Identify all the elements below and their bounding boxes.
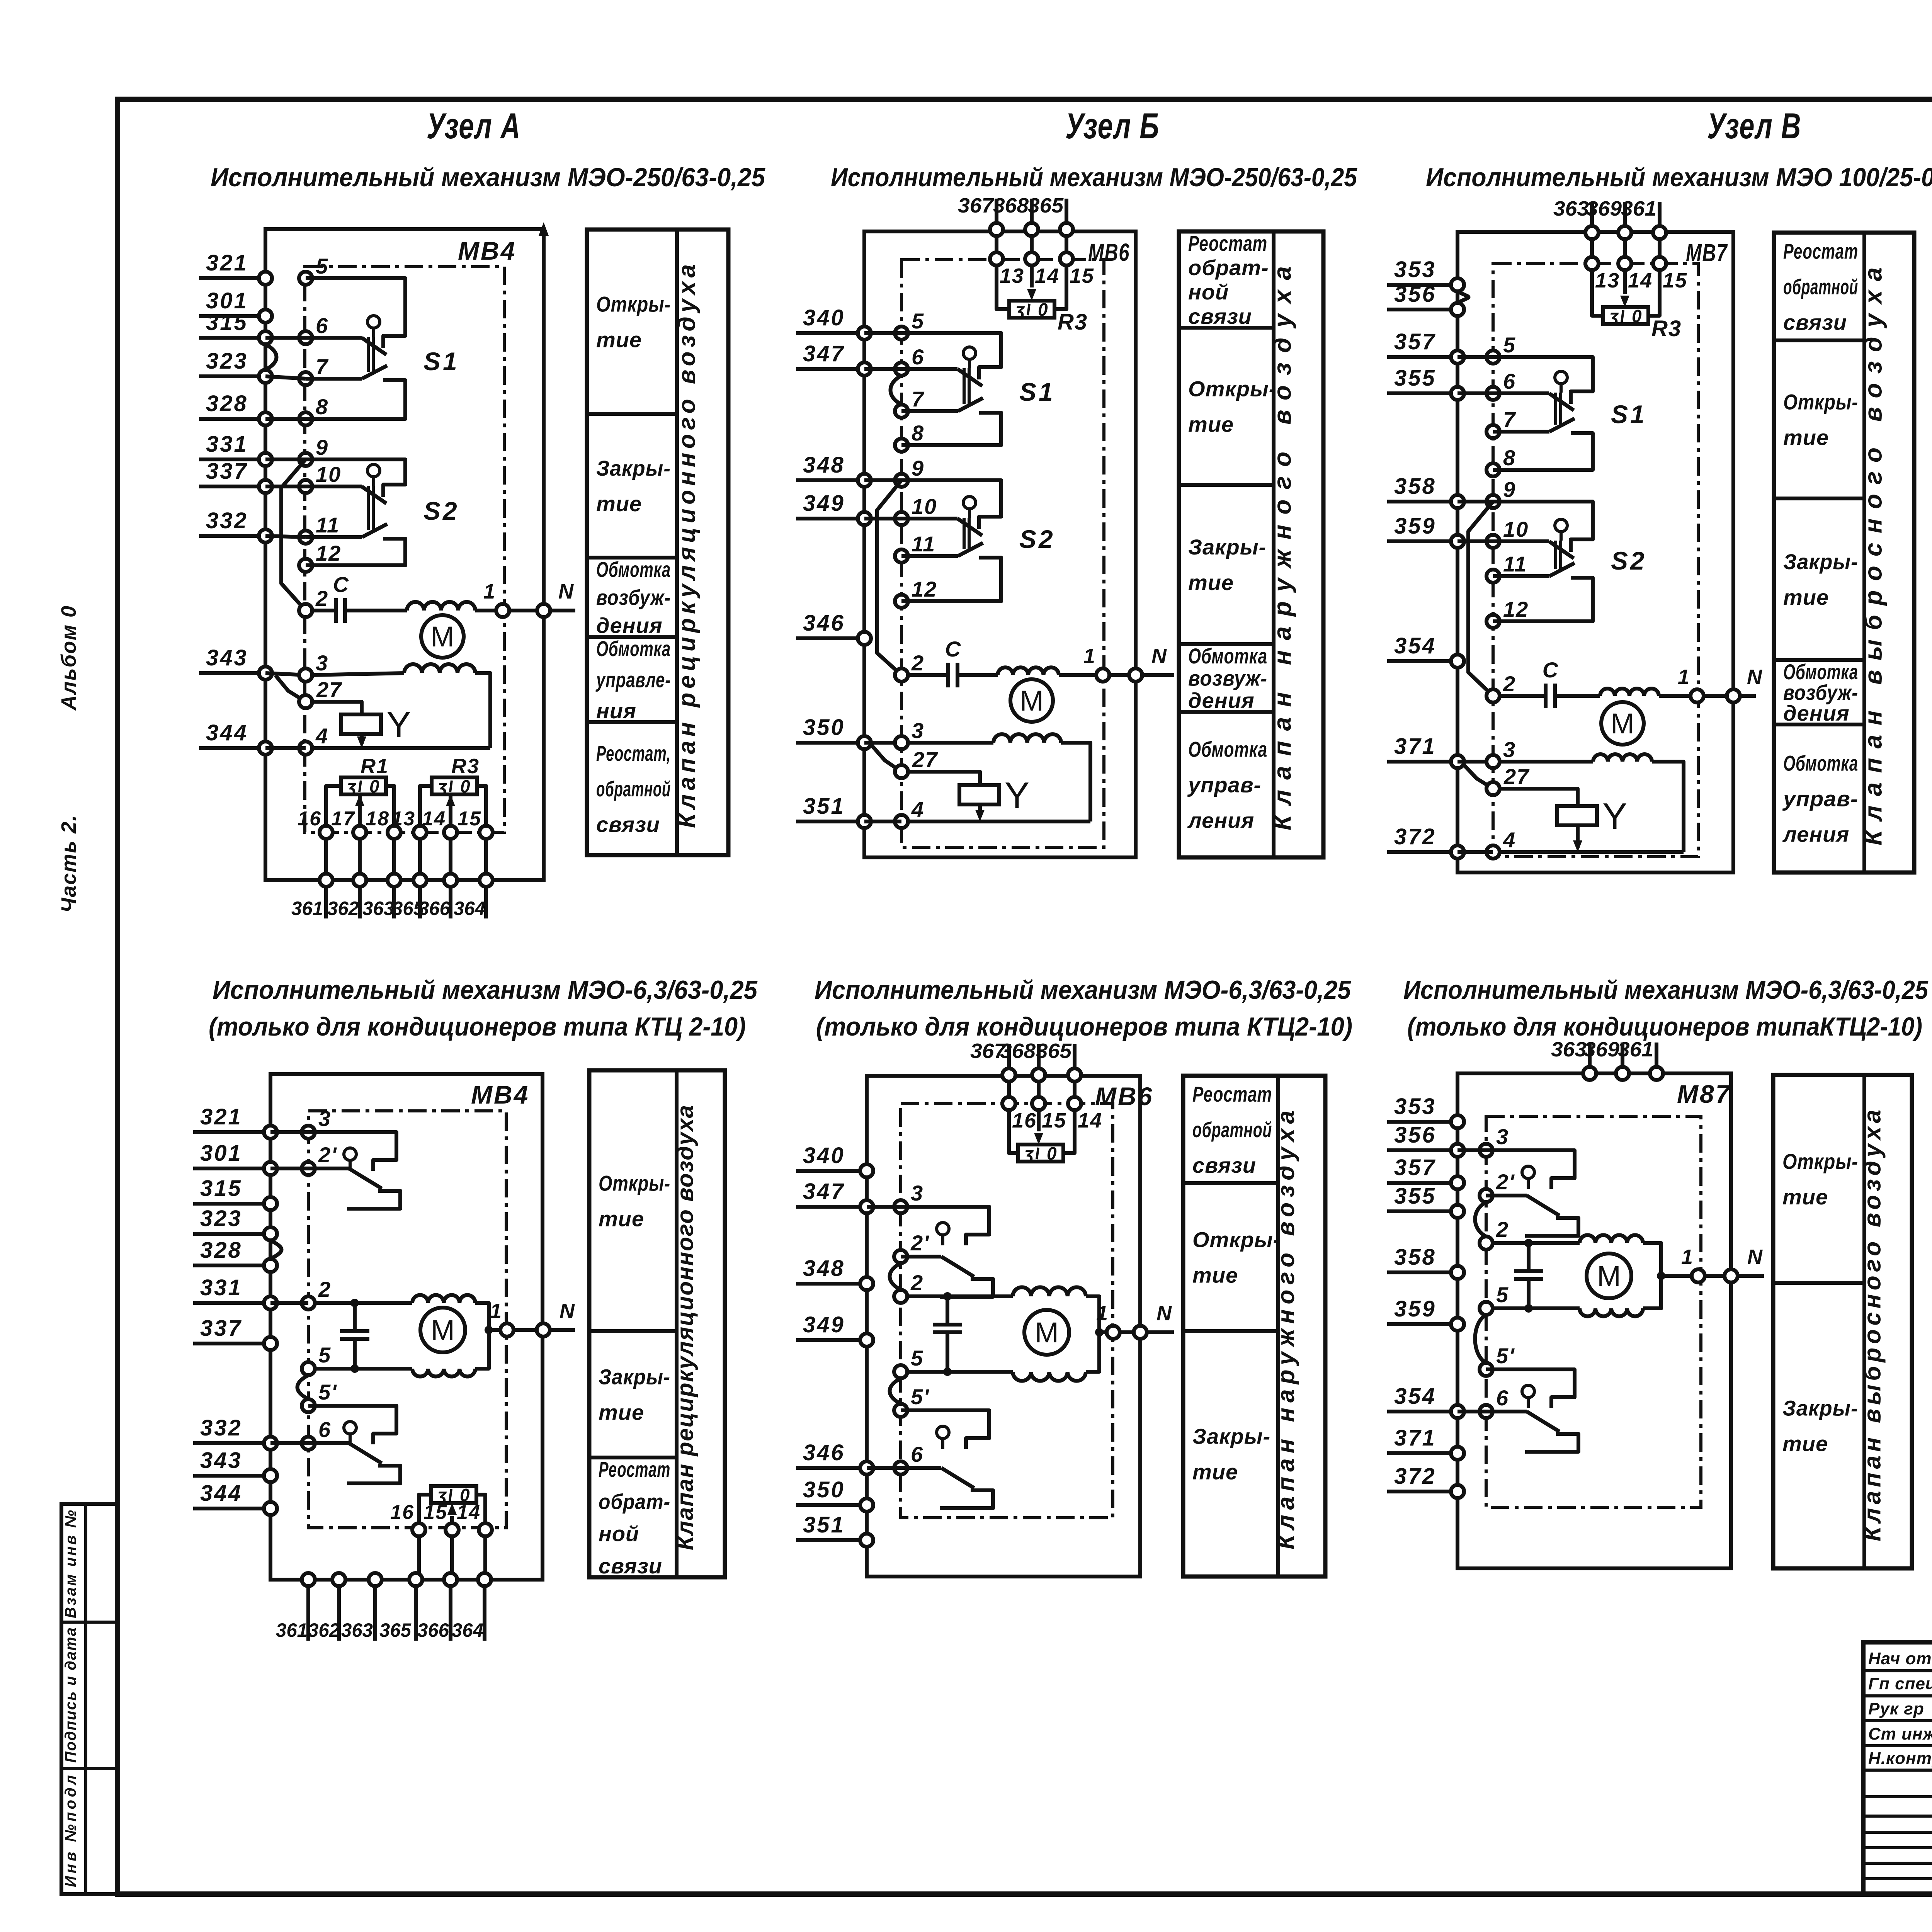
terminal 321: [199, 250, 272, 285]
svg-text:Нач отд.: Нач отд.: [1868, 1649, 1932, 1668]
terminal 372: [1387, 1464, 1464, 1498]
svg-text:2': 2': [910, 1231, 929, 1255]
pin 16: [298, 808, 333, 839]
svg-text:332: 332: [200, 1415, 242, 1440]
pin 4: [299, 724, 328, 755]
pin 9: [299, 435, 328, 466]
svg-text:371: 371: [1394, 734, 1436, 759]
resistor R: [1018, 1143, 1063, 1163]
svg-text:363: 363: [341, 1619, 373, 1641]
resistor R3 feed wires: [997, 265, 1066, 309]
svg-text:361: 361: [276, 1619, 308, 1641]
motor M: [1601, 702, 1644, 745]
svg-text:344: 344: [200, 1481, 242, 1506]
svg-text:связи: связи: [599, 1554, 662, 1578]
svg-text:351: 351: [803, 1512, 845, 1537]
block A2 outer rect: [270, 1074, 543, 1580]
motor M: [1024, 1310, 1069, 1355]
block C2b outer rect: [1458, 1073, 1731, 1568]
terminal 359: [1387, 1296, 1464, 1331]
block B2 outer rect: [867, 1076, 1140, 1577]
terminal label 361: [276, 1619, 308, 1641]
svg-text:3: 3: [316, 651, 328, 675]
subtitle mechanism C2 line1: [1403, 975, 1929, 1005]
limit switch S1: [306, 278, 459, 419]
terminal 321: [193, 1104, 277, 1139]
subtitle mechanism B2 line1: [815, 975, 1351, 1005]
svg-text:N: N: [1747, 1245, 1763, 1269]
svg-text:Исполнительный механизм МЭО 1: Исполнительный механизм МЭО 100/25-0,25: [1426, 163, 1932, 192]
svg-text:МВ4: МВ4: [458, 236, 516, 265]
pin 13: [990, 236, 1024, 287]
block C1 outer rect: [1458, 232, 1733, 872]
pin 3: [895, 718, 924, 749]
resistor R bottom: [431, 1485, 476, 1505]
block A2 dash-dot boundary: [308, 1111, 506, 1528]
svg-text:возвуж-: возвуж-: [1188, 666, 1267, 690]
wire 332-11: [265, 536, 306, 537]
terminal label 363: [341, 1619, 373, 1641]
R feed wires: [1009, 1110, 1075, 1153]
svg-text:ʒ: ʒ: [1608, 306, 1619, 326]
pin 8: [299, 395, 328, 425]
svg-text:тие: тие: [1192, 1263, 1238, 1287]
pin 16: [1002, 1082, 1037, 1132]
pin 5: [894, 1346, 923, 1378]
header Узел В: [1707, 105, 1801, 146]
terminal 348: [796, 452, 871, 487]
terminal 340: [796, 305, 871, 340]
terminal 348: [796, 1256, 873, 1290]
terminal 371: [1387, 734, 1464, 768]
svg-text:R3: R3: [451, 755, 480, 778]
wire 337-10: [265, 485, 306, 488]
svg-text:361: 361: [1621, 197, 1656, 220]
svg-text:тие: тие: [599, 1207, 644, 1231]
svg-text:МВ6: МВ6: [1088, 238, 1130, 266]
svg-text:5: 5: [912, 309, 924, 333]
limit switch S2: [1493, 502, 1647, 621]
jog 3 to pin 27: [871, 745, 901, 772]
subtitle mechanism A2 line2: [209, 1012, 746, 1041]
svg-text:321: 321: [200, 1104, 242, 1129]
node N: [537, 1323, 550, 1337]
svg-text:обрат-: обрат-: [1188, 255, 1269, 280]
svg-text:5: 5: [318, 1343, 331, 1367]
terminal 328: [199, 391, 272, 425]
field winding coil: [998, 667, 1059, 675]
pin 10: [1486, 517, 1529, 548]
terminal 337: [199, 459, 272, 493]
svg-text:Узел Б: Узел Б: [1065, 105, 1160, 146]
svg-text:МВ4: МВ4: [471, 1080, 529, 1109]
svg-text:Закры-: Закры-: [1188, 535, 1266, 559]
pin 2': [302, 1143, 337, 1175]
svg-text:14: 14: [1078, 1109, 1102, 1132]
wire 5 row: [907, 1370, 1013, 1374]
pin 3: [1480, 1124, 1509, 1157]
pin 13: [391, 808, 427, 839]
svg-text:350: 350: [803, 1477, 845, 1502]
svg-text:Откры-: Откры-: [1783, 390, 1858, 414]
svg-text:C: C: [333, 572, 349, 597]
svg-text:328: 328: [206, 391, 248, 416]
svg-text:2: 2: [318, 1277, 331, 1301]
terminal 332: [199, 508, 272, 543]
svg-text:Альбом 0: Альбом 0: [57, 605, 80, 711]
svg-text:1: 1: [490, 1299, 502, 1323]
header Узел А: [427, 105, 521, 146]
svg-text:1: 1: [1083, 645, 1095, 668]
pin 5: [302, 1343, 331, 1375]
pin 7: [895, 387, 925, 418]
svg-text:353: 353: [1394, 257, 1436, 282]
svg-text:347: 347: [803, 1179, 845, 1204]
pin 5: [299, 254, 328, 285]
motor M: [1587, 1253, 1631, 1298]
terminal 350: [796, 1477, 873, 1512]
node 1: [1692, 1269, 1705, 1282]
svg-text:М: М: [1597, 1260, 1621, 1292]
terminal 337: [193, 1316, 277, 1350]
limit switch S1: [901, 333, 1055, 445]
svg-text:14: 14: [1035, 264, 1060, 287]
pin 14: [1068, 1082, 1102, 1132]
svg-text:C: C: [945, 637, 961, 661]
svg-text:0: 0: [369, 776, 379, 796]
svg-text:Клапан наружного воздуха: Клапан наружного воздуха: [1273, 1111, 1299, 1549]
bus-pin wire: [1458, 850, 1493, 854]
svg-text:358: 358: [1394, 1245, 1436, 1270]
pin 27: [1486, 764, 1530, 795]
terminal 301: [193, 1141, 277, 1175]
switch upper: [1486, 1150, 1578, 1236]
svg-text:Реостат: Реостат: [1783, 239, 1858, 264]
pin 15: [1032, 1082, 1066, 1132]
svg-text:Гп спец: Гп спец: [1868, 1674, 1932, 1693]
svg-text:14: 14: [457, 1501, 481, 1524]
table block C1: [1774, 233, 1914, 872]
block C1 dash-dot boundary: [1493, 264, 1698, 857]
svg-text:Обмотка: Обмотка: [596, 557, 671, 582]
terminal 331: [193, 1275, 277, 1310]
terminal label 366: [418, 898, 451, 919]
R3 terminal wires: [420, 786, 486, 832]
svg-text:ния: ния: [596, 699, 636, 723]
wire 9 to pin 2 jog: [877, 480, 901, 675]
svg-text:Исполнительный механизм МЭО-6: Исполнительный механизм МЭО-6,3/63-0,25: [1403, 975, 1929, 1005]
svg-text:351: 351: [803, 794, 845, 819]
svg-text:353: 353: [1394, 1094, 1436, 1119]
wire 5 row: [1493, 1306, 1580, 1310]
svg-text:18: 18: [366, 808, 389, 830]
table block A2: [589, 1070, 725, 1578]
svg-text:3: 3: [1496, 1124, 1509, 1149]
svg-text:Закры-: Закры-: [1783, 549, 1858, 574]
pin 2: [302, 1277, 331, 1310]
bus-pin wire: [270, 1130, 308, 1134]
terminal label 364: [454, 898, 485, 919]
terminal 347: [796, 341, 871, 376]
svg-text:5': 5': [911, 1384, 929, 1409]
block B dash-dot boundary: [901, 260, 1104, 847]
svg-text:N: N: [560, 1299, 575, 1323]
svg-text:367: 367: [958, 194, 995, 217]
label М87: [1677, 1080, 1731, 1108]
node 1: [1690, 689, 1704, 702]
svg-text:347: 347: [803, 341, 845, 366]
terminal 346: [796, 1440, 873, 1475]
svg-text:337: 337: [206, 459, 248, 484]
svg-text:356: 356: [1394, 282, 1436, 307]
svg-text:ления: ления: [1782, 822, 1849, 847]
label МВ6: [1095, 1082, 1153, 1111]
bus-pin wire: [1458, 1148, 1486, 1152]
svg-text:3: 3: [318, 1106, 331, 1131]
svg-text:М: М: [1035, 1316, 1059, 1349]
control winding coil: [1500, 754, 1684, 852]
node 1: [1096, 668, 1109, 682]
pin 27: [299, 677, 342, 708]
terminal 346: [796, 611, 871, 645]
terminal 354: [1387, 1384, 1464, 1418]
jog 343 to pin 27: [276, 675, 306, 702]
pin 2: [895, 651, 924, 682]
svg-text:6: 6: [1503, 369, 1516, 393]
pin 11: [895, 532, 935, 563]
svg-text:обратной: обратной: [596, 777, 671, 801]
capacitor C: [908, 637, 998, 687]
terminal 315: [193, 1176, 277, 1210]
pin 14: [457, 1501, 492, 1536]
svg-text:10: 10: [1503, 517, 1529, 541]
pin 5': [894, 1384, 929, 1417]
svg-text:М87: М87: [1677, 1080, 1731, 1108]
pin 10: [895, 494, 937, 525]
svg-text:М: М: [1611, 707, 1634, 740]
bridge arc: [1475, 1202, 1486, 1236]
svg-text:S2: S2: [1019, 525, 1055, 553]
pin 3: [894, 1181, 923, 1213]
subtitle mechanism A: [211, 163, 765, 192]
terminal label 365: [379, 1619, 412, 1641]
pin 13: [1585, 239, 1620, 292]
svg-text:Ст инж: Ст инж: [1868, 1725, 1932, 1743]
limit switch S1: [1493, 357, 1647, 470]
terminal 372: [1387, 824, 1464, 859]
svg-text:15: 15: [423, 1501, 447, 1524]
svg-text:2: 2: [1496, 1217, 1509, 1242]
terminal 353: [1387, 257, 1464, 291]
svg-text:12: 12: [1503, 597, 1529, 621]
svg-text:17: 17: [331, 808, 355, 830]
terminal 343 to pin 3: [265, 673, 306, 675]
svg-text:N: N: [1156, 1302, 1172, 1325]
svg-text:обрат-: обрат-: [599, 1489, 670, 1514]
svg-text:ления: ления: [1187, 808, 1254, 833]
svg-text:16: 16: [1012, 1109, 1037, 1132]
terminal 315: [199, 310, 272, 344]
svg-text:связи: связи: [596, 812, 660, 837]
terminal 343: [199, 645, 272, 680]
terminal 355: [1387, 1184, 1464, 1218]
capacitor C vertical: [1493, 1239, 1580, 1313]
svg-text:359: 359: [1394, 1296, 1436, 1321]
svg-text:Исполнительный механизм МЭО-: Исполнительный механизм МЭО-6,3/63-0,25: [815, 975, 1351, 1005]
svg-text:ʒ: ʒ: [437, 776, 447, 796]
top terminal 368: [1000, 1039, 1045, 1082]
pin 15: [1060, 236, 1094, 287]
svg-text:8: 8: [912, 421, 924, 445]
svg-text:тие: тие: [596, 328, 642, 352]
pin 12: [1486, 597, 1529, 628]
pin 5': [302, 1380, 337, 1412]
svg-text:369: 369: [1584, 1038, 1619, 1061]
svg-text:9: 9: [1503, 477, 1516, 502]
wire 5 row: [315, 1367, 412, 1371]
svg-text:321: 321: [206, 250, 248, 276]
margin note Альбом 0: [57, 605, 80, 711]
switch upper: [308, 1132, 400, 1209]
bottom terminal row: [320, 839, 493, 918]
svg-text:11: 11: [1503, 552, 1527, 576]
svg-text:2': 2': [318, 1143, 337, 1167]
resistor R1: [341, 755, 389, 796]
stamp label Инв №подл: [62, 1775, 79, 1887]
svg-text:1: 1: [483, 580, 495, 603]
svg-text:Обмотка: Обмотка: [596, 636, 671, 661]
svg-text:348: 348: [803, 452, 845, 478]
svg-text:6: 6: [1496, 1386, 1509, 1410]
svg-text:R3: R3: [1058, 310, 1088, 335]
solenoid Y: [1500, 789, 1627, 852]
svg-text:ной: ной: [599, 1522, 639, 1546]
svg-text:372: 372: [1394, 1464, 1436, 1489]
bus-pin wire: [1458, 391, 1493, 395]
terminal label 366: [417, 1619, 449, 1641]
winding coil lower: [1580, 1308, 1643, 1316]
svg-text:366: 366: [418, 898, 451, 919]
pin 18: [366, 808, 401, 839]
pin 17: [331, 808, 366, 839]
svg-text:6: 6: [318, 1417, 331, 1442]
terminal label 363: [362, 898, 394, 919]
svg-text:337: 337: [200, 1316, 242, 1341]
svg-text:10: 10: [912, 494, 937, 519]
wire 1-N: [1659, 665, 1762, 696]
switch upper: [901, 1207, 993, 1297]
svg-text:Закры-: Закры-: [1782, 1396, 1858, 1420]
capacitor C vertical: [315, 1299, 412, 1373]
terminal 323: [199, 349, 272, 383]
svg-text:9: 9: [912, 456, 924, 480]
pin 14: [422, 808, 457, 839]
svg-text:13: 13: [1595, 269, 1620, 292]
pin 9: [1486, 477, 1516, 508]
pin 15: [423, 1501, 459, 1536]
svg-text:Обмотка: Обмотка: [1188, 737, 1267, 762]
pin 15: [457, 808, 493, 839]
table block B: [1179, 231, 1323, 857]
bottom terminal row: [302, 1536, 491, 1641]
subtitle mechanism B: [831, 163, 1357, 192]
bus-pin wire: [1458, 500, 1493, 503]
svg-text:11: 11: [316, 513, 340, 537]
personnel row Рук гр: [1868, 1699, 1932, 1718]
svg-text:2: 2: [910, 1270, 923, 1295]
svg-text:340: 340: [803, 305, 845, 330]
subtitle mechanism B2 line2: [816, 1012, 1352, 1041]
resistor R3: [1603, 306, 1682, 341]
svg-text:2: 2: [911, 651, 924, 675]
subtitle mechanism A2 line1: [213, 975, 758, 1005]
wire 1-N: [1643, 1243, 1764, 1308]
svg-text:Исполнительный механизм МЭО-: Исполнительный механизм МЭО-250/63-0,25: [211, 163, 765, 192]
node N: [1727, 689, 1740, 702]
terminal 355: [1387, 366, 1464, 400]
svg-text:тие: тие: [1783, 585, 1829, 609]
svg-text:тие: тие: [1188, 570, 1234, 595]
svg-text:R3: R3: [1651, 316, 1682, 341]
block A outer rect: [265, 222, 549, 880]
svg-text:S1: S1: [1019, 378, 1055, 406]
bridge arc: [1475, 1315, 1486, 1363]
top terminal 367: [970, 1039, 1015, 1082]
terminal label 361: [291, 898, 323, 919]
stamp label Взам инв №: [62, 1510, 79, 1618]
svg-text:управ-: управ-: [1187, 773, 1261, 797]
svg-text:Откры-: Откры-: [1782, 1149, 1858, 1173]
svg-text:S1: S1: [423, 347, 459, 376]
svg-text:332: 332: [206, 508, 248, 533]
svg-text:Обмотка: Обмотка: [1783, 751, 1858, 776]
top terminal 367: [958, 194, 1003, 236]
control winding coil: [908, 734, 1090, 821]
bus-pin wire: [1458, 539, 1493, 543]
svg-text:5': 5': [318, 1380, 337, 1404]
field winding coil: [407, 602, 475, 611]
svg-text:Откры-: Откры-: [596, 292, 671, 316]
svg-text:6: 6: [911, 1442, 923, 1466]
svg-text:9: 9: [316, 435, 328, 459]
terminal 340: [796, 1143, 873, 1177]
pin 3: [299, 651, 328, 682]
svg-text:368: 368: [1000, 1039, 1036, 1063]
svg-text:ʒ: ʒ: [1014, 299, 1025, 320]
svg-text:Закры-: Закры-: [1192, 1424, 1270, 1449]
svg-text:тие: тие: [1782, 1432, 1828, 1456]
pin 14: [1618, 239, 1653, 292]
wire 323-7: [265, 376, 306, 379]
svg-text:обратной: обратной: [1783, 275, 1858, 299]
svg-text:Закры-: Закры-: [599, 1365, 670, 1389]
control winding coil: [312, 664, 490, 748]
svg-text:Узел А: Узел А: [427, 105, 521, 146]
top terminal 369: [1584, 1038, 1629, 1080]
pin 16: [390, 1501, 425, 1536]
svg-text:тие: тие: [1192, 1460, 1238, 1484]
personnel table rows: [1863, 1671, 1932, 1879]
svg-text:тие: тие: [599, 1400, 644, 1425]
pin 5: [895, 309, 924, 340]
winding coil upper: [1013, 1287, 1086, 1296]
svg-text:3: 3: [912, 718, 924, 743]
top terminal 361: [1618, 1038, 1663, 1080]
svg-text:Y: Y: [386, 704, 411, 745]
svg-text:323: 323: [206, 349, 248, 374]
terminal 351: [796, 1512, 873, 1547]
pin 2: [299, 586, 328, 617]
